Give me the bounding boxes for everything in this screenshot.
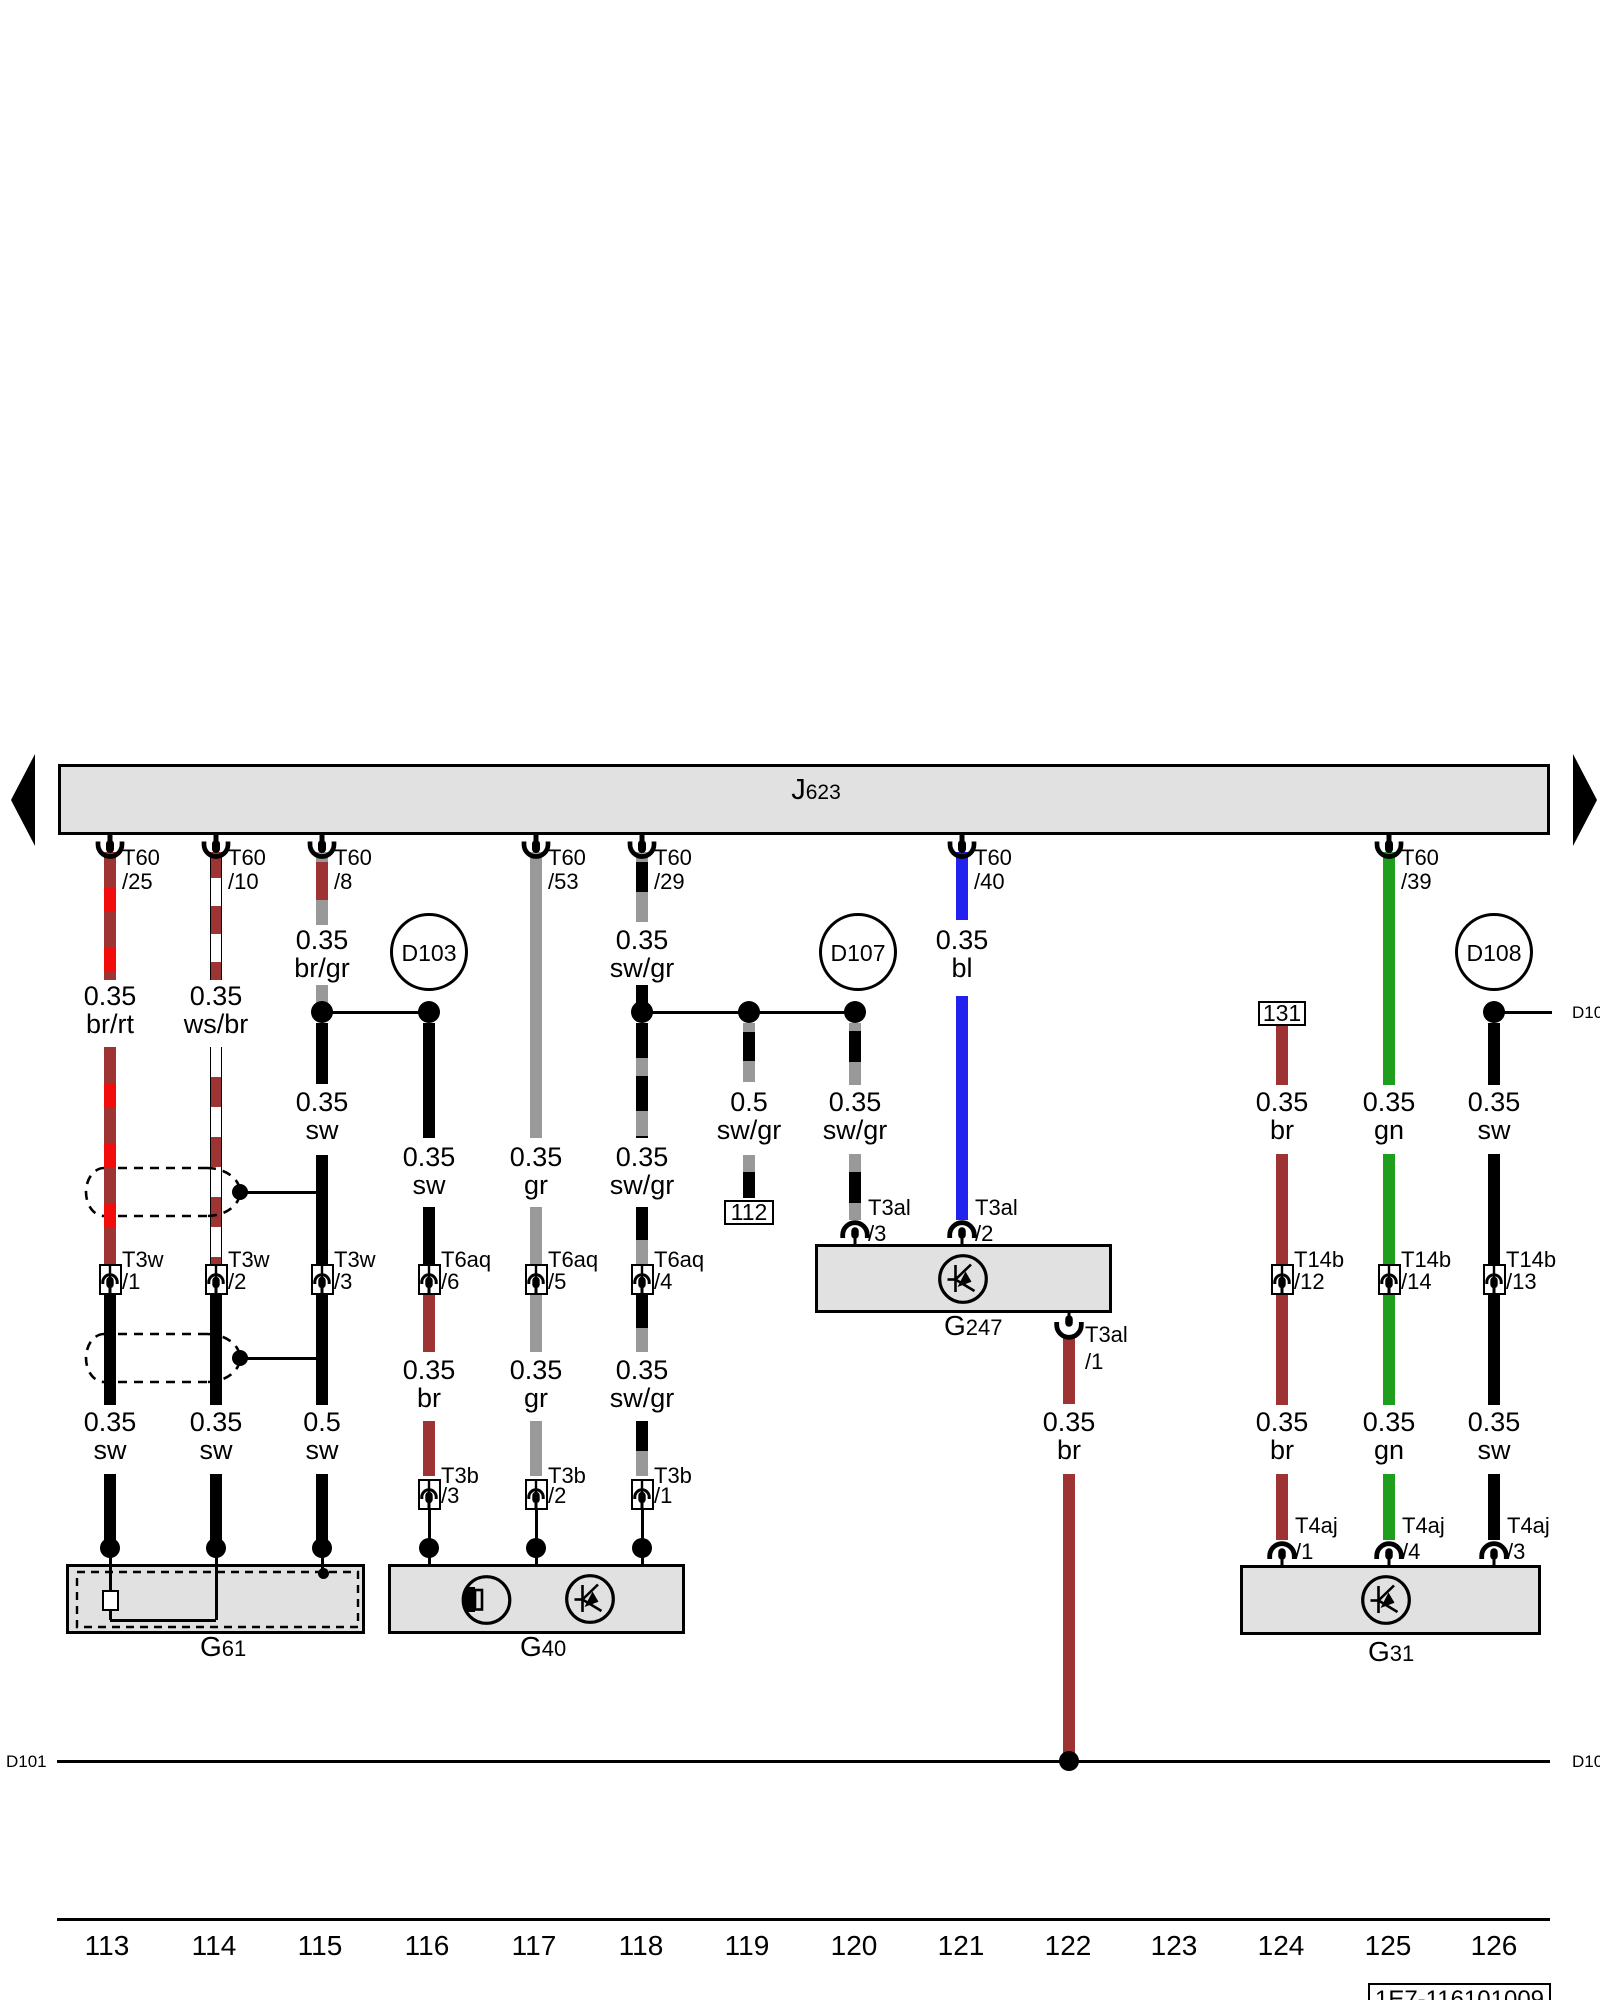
label G61 <box>200 1631 246 1663</box>
label T60/39 <box>1401 846 1439 869</box>
wire 0.35 gr below T6aq/5 <box>530 1295 542 1352</box>
node A <box>311 1001 333 1023</box>
label 0.35 sw <box>1424 1408 1564 1464</box>
lead into G40 box pin 2 <box>535 1548 538 1566</box>
wire 0.35 sw below node F <box>1488 1023 1500 1085</box>
wire br/gr stub to node <box>316 985 328 1012</box>
label 0.35 sw/gr <box>572 1143 712 1199</box>
terminal strip 131 <box>1258 1001 1306 1026</box>
label 0.35 gn <box>1319 1088 1459 1144</box>
label G40 <box>520 1631 566 1663</box>
label 0.35 sw/gr <box>572 926 712 982</box>
wire 0.35 sw/gr from T60/29 <box>636 852 648 922</box>
label 0.35 bl <box>892 926 1032 982</box>
label 0.35 sw <box>252 1088 392 1144</box>
shield drain link to sw wire (upper) <box>246 1191 316 1194</box>
wire 0.35 gn to T4aj/4 <box>1383 1474 1395 1540</box>
label 0.35 sw/gr <box>572 1356 712 1412</box>
node at G61 pin 1 <box>100 1538 120 1558</box>
sensor G40 (hall sender) box <box>388 1564 685 1634</box>
wire splice D108 <box>1455 913 1533 991</box>
wire 0.35 sw below T3w/1 <box>104 1295 116 1405</box>
wire 0.35 gr to T6aq/5 <box>530 1207 542 1264</box>
connector T3w/2 symbol <box>209 1264 223 1295</box>
wire 0.35 gn to T14b/14 <box>1383 1154 1395 1264</box>
label T6aq/6 <box>441 1248 491 1271</box>
connector T3al/1 <box>1057 1313 1082 1337</box>
label 0.35 gr <box>466 1143 606 1199</box>
connector T14b/14 <box>1378 1264 1401 1295</box>
lead into G40 pin 2 <box>535 1510 538 1548</box>
label 0.35 ws/br <box>146 982 286 1038</box>
wire 0.35 br below T3al/1 <box>1063 1338 1075 1404</box>
label T3w/3 <box>334 1248 376 1271</box>
shield drain link to sw wire (lower) <box>246 1357 316 1360</box>
connector T6aq/4 <box>631 1264 654 1295</box>
wire 0.35 br below T6aq/6 <box>423 1295 435 1352</box>
bus connector T60/8 pin <box>310 834 334 857</box>
G61 shield node <box>318 1568 329 1579</box>
label 0.35 br <box>1212 1408 1352 1464</box>
wire splice D103 <box>390 913 468 991</box>
node F <box>1483 1001 1505 1023</box>
label 0.35 sw <box>1424 1088 1564 1144</box>
wire 0.5 sw/gr to terminal 112 <box>743 1155 755 1198</box>
label T4aj/3 <box>1507 1514 1550 1537</box>
wire link node C to node E <box>642 1011 855 1014</box>
label T60/29 <box>654 846 692 869</box>
wire 0.35 sw/gr below node E <box>849 1023 861 1085</box>
wire 0.35 br to T3b/3 <box>423 1421 435 1476</box>
connector T4aj/3 <box>1482 1544 1507 1565</box>
node at G61 shield pin <box>312 1538 332 1558</box>
connector T3b/1 symbol <box>635 1479 649 1510</box>
G40 rotor symbol <box>458 1577 510 1624</box>
bus connector T60/39 pin <box>1377 834 1401 857</box>
label T14b/12 <box>1294 1248 1344 1271</box>
label 0.5 sw <box>252 1408 392 1464</box>
wire 0.35 sw below T3w/2 <box>210 1295 222 1405</box>
G61 internal lead below resistor <box>109 1611 112 1620</box>
wire 0.35 br to ground rail <box>1063 1474 1075 1761</box>
label T14b/13 <box>1506 1248 1556 1271</box>
wire 0.35 br/gr from T60/8 <box>316 852 328 925</box>
node D <box>738 1001 760 1023</box>
wire 0.5 sw below T3w/3 <box>316 1295 328 1405</box>
label T14b/14 <box>1401 1248 1451 1271</box>
hall sensor symbol in G247 <box>940 1256 987 1303</box>
wire 0.5 sw/gr below node D <box>743 1023 755 1082</box>
label T60/53 <box>548 846 586 869</box>
connector T4aj/1 <box>1270 1544 1295 1565</box>
connector T3al/3 <box>843 1223 868 1244</box>
connector T14b/14 symbol <box>1382 1264 1396 1295</box>
label D101 left <box>6 1753 47 1770</box>
G61 internal resistor <box>102 1590 119 1611</box>
bus connector T60/29 pin <box>630 834 654 857</box>
node at G61 pin 2 <box>206 1538 226 1558</box>
wire link node F to page edge <box>1494 1011 1552 1014</box>
wire 0.5 sw to G61 shield <box>316 1474 328 1542</box>
bus arrow right <box>1573 754 1597 846</box>
wire 0.35 br below 131 <box>1276 1026 1288 1085</box>
connector T3w/3 symbol <box>315 1264 329 1295</box>
label T60/8 <box>334 846 372 869</box>
connector T3w/2 <box>205 1264 228 1295</box>
terminal strip 112 <box>724 1200 774 1225</box>
label T4aj/1 <box>1295 1514 1338 1537</box>
label D106 continuation <box>1572 1004 1600 1021</box>
cable shield (upper) around br/rt and ws/br wires <box>86 1168 240 1216</box>
connector T3b/3 symbol <box>422 1479 436 1510</box>
connector T3b/2 symbol <box>529 1479 543 1510</box>
label 0.35 br <box>999 1408 1139 1464</box>
wire 0.35 gn below T14b/14 <box>1383 1295 1395 1405</box>
label T60/10 <box>228 846 266 869</box>
G61 shield dashed rectangle <box>77 1572 358 1627</box>
connector T14b/12 <box>1271 1264 1294 1295</box>
cable shield (lower) around sw wires <box>86 1334 240 1382</box>
wire 0.35 br/rt from T60/25 (upper) <box>104 852 116 980</box>
wire 0.35 br to T4aj/1 <box>1276 1474 1288 1540</box>
label 0.35 br/rt <box>40 982 180 1038</box>
sensor G247 (engine speed sender) <box>815 1244 1112 1313</box>
connector T3b/3 <box>418 1479 441 1510</box>
label T3al/1 <box>1085 1323 1128 1346</box>
wire 0.35 sw below T14b/13 <box>1488 1295 1500 1405</box>
wire 0.35 sw below node A <box>316 1023 328 1084</box>
label T3b/3 <box>441 1464 479 1487</box>
G61 internal lead pin1 <box>109 1548 112 1590</box>
wire 0.35 sw to T4aj/3 <box>1488 1474 1500 1540</box>
lead into G40 box pin 3 <box>428 1548 431 1566</box>
connector T14b/12 symbol <box>1275 1264 1289 1295</box>
label 0.35 sw <box>359 1143 499 1199</box>
node C <box>631 1001 653 1023</box>
shield drain node (upper) <box>232 1184 248 1200</box>
label T3w/1 <box>122 1248 164 1271</box>
connector T14b/13 <box>1483 1264 1506 1295</box>
connector T4aj/4 <box>1377 1544 1402 1565</box>
frame line <box>57 1918 1550 1921</box>
wire 0.35 sw/gr to T3b/1 <box>636 1421 648 1476</box>
wire 0.35 bl to T3al/2 <box>956 996 968 1220</box>
connector T14b/13 symbol <box>1487 1264 1501 1295</box>
label 0.35 br <box>1212 1088 1352 1144</box>
connector T6aq/6 <box>418 1264 441 1295</box>
wire splice D107 <box>819 913 897 991</box>
node on ground rail D101 <box>1059 1751 1079 1771</box>
label T4aj/4 <box>1402 1514 1445 1537</box>
connector T3w/1 symbol <box>103 1264 117 1295</box>
label T3al/2 <box>975 1196 1018 1219</box>
wire 0.35 br to T14b/12 <box>1276 1154 1288 1264</box>
connector T3al/2 <box>950 1223 975 1244</box>
label T6aq/5 <box>548 1248 598 1271</box>
node at G40 pin 1 <box>632 1538 652 1558</box>
ground rail D101 <box>57 1760 1550 1763</box>
lead into G40 pin 1 <box>641 1510 644 1548</box>
wire 0.35 gr to T3b/2 <box>530 1421 542 1476</box>
label 0.35 gr <box>466 1356 606 1412</box>
label T6aq/4 <box>654 1248 704 1271</box>
label 0.35 sw <box>146 1408 286 1464</box>
wire 0.35 gn from T60/39 <box>1383 852 1395 1085</box>
sensor G61 (knock sensor) box <box>66 1564 365 1634</box>
bus connector T60/10 pin <box>204 834 228 857</box>
label G247 <box>944 1310 1003 1342</box>
shield drain node (lower) <box>232 1350 248 1366</box>
control unit J623 bus bar <box>58 764 1550 835</box>
node at G40 pin 3 <box>419 1538 439 1558</box>
bus arrow left <box>11 754 35 846</box>
wire 0.35 sw below D103 node <box>423 1023 435 1138</box>
wire 0.35 sw to T14b/13 <box>1488 1154 1500 1264</box>
label 0.35 gn <box>1319 1408 1459 1464</box>
label T3al/3 <box>868 1196 911 1219</box>
wire 0.35 sw/gr below node C <box>636 1023 648 1138</box>
label T60/40 <box>974 846 1012 869</box>
label T3b/1 <box>654 1464 692 1487</box>
label 0.35 sw/gr <box>785 1088 925 1144</box>
connector T3b/1 <box>631 1479 654 1510</box>
wire 0.35 sw to T6aq/6 <box>423 1207 435 1264</box>
wire 0.35 sw to G61 <box>104 1474 116 1542</box>
G61 internal lead pin2 <box>215 1548 218 1620</box>
channel number track <box>47 1932 167 1960</box>
lead into G40 box pin 1 <box>641 1548 644 1566</box>
node E <box>844 1001 866 1023</box>
wire link node A to node B <box>322 1011 429 1014</box>
wire 0.35 sw to T3w/3 <box>316 1155 328 1264</box>
connector T3b/2 <box>525 1479 548 1510</box>
label J623 <box>736 774 896 807</box>
wire 0.35 ws/br from T60/10 (upper) <box>210 852 222 980</box>
hall sensor symbol in G31 <box>1363 1577 1410 1624</box>
wire 0.35 sw/gr below T6aq/4 <box>636 1295 648 1352</box>
wire 0.35 bl from T60/40 (upper) <box>956 852 968 920</box>
wire 0.35 ws/br (lower) <box>210 1047 222 1264</box>
label 0.5 sw/gr <box>679 1088 819 1144</box>
wire 0.35 br/rt (lower) <box>104 1047 116 1264</box>
label D101 right continuation <box>1572 1753 1600 1770</box>
connector T3w/1 <box>99 1264 122 1295</box>
connector T6aq/5 symbol <box>529 1264 543 1295</box>
node at G40 pin 2 <box>526 1538 546 1558</box>
label G31 <box>1368 1636 1414 1668</box>
label T60/25 <box>122 846 160 869</box>
wire 0.35 sw/gr to T3al/3 <box>849 1154 861 1220</box>
wire 0.35 sw to G61 <box>210 1474 222 1542</box>
label 0.35 br/gr <box>252 926 392 982</box>
hall sensor symbol in G40 <box>567 1576 614 1623</box>
label T3b/2 <box>548 1464 586 1487</box>
lead into G40 pin 3 <box>428 1510 431 1548</box>
connector T6aq/5 <box>525 1264 548 1295</box>
wire sw/gr stub to node C <box>636 985 648 1012</box>
bus connector T60/40 pin <box>950 834 974 857</box>
sensor G31 box <box>1240 1565 1541 1635</box>
connector T3w/3 <box>311 1264 334 1295</box>
bus connector T60/25 pin <box>98 834 122 857</box>
label 0.35 sw <box>40 1408 180 1464</box>
bus connector T60/53 pin <box>524 834 548 857</box>
node B <box>418 1001 440 1023</box>
connector T6aq/4 symbol <box>635 1264 649 1295</box>
wire 0.35 sw/gr to T6aq/4 <box>636 1207 648 1264</box>
G61 internal link <box>110 1619 216 1622</box>
G61 shield lead <box>321 1548 324 1572</box>
wire 0.35 br below T14b/12 <box>1276 1295 1288 1405</box>
wire 0.35 gr from T60/53 <box>530 852 542 1138</box>
connector T6aq/6 symbol <box>422 1264 436 1295</box>
label 0.35 br <box>359 1356 499 1412</box>
diagram number box 1E7-116101009 <box>1368 1983 1551 2000</box>
label T3w/2 <box>228 1248 270 1271</box>
